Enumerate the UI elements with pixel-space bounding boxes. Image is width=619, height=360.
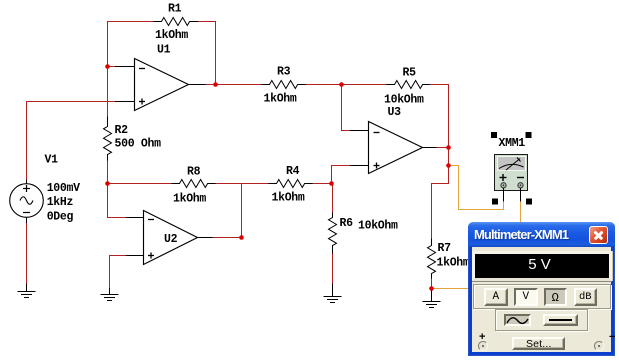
wire: R7 bottom to ground node	[431, 279, 433, 289]
junction dot: U1 output node	[213, 82, 218, 87]
wire: orange lead from R7 ground node right behind window	[432, 288, 472, 290]
selection handle bottom-left	[492, 199, 498, 205]
svg-text:U1: U1	[157, 44, 171, 57]
svg-text:500 Ohm: 500 Ohm	[115, 138, 162, 151]
junction dot: U2 output node	[239, 235, 244, 240]
button V	[514, 288, 538, 306]
ground below R7	[423, 289, 441, 308]
resistor R3	[262, 81, 306, 89]
wire: R4 right to node C	[313, 183, 332, 185]
wire: R2 bottom to node B	[107, 161, 109, 184]
ground below U2	[101, 288, 119, 301]
svg-text:U2: U2	[164, 233, 178, 246]
waveform button group	[495, 309, 588, 331]
resistor R4	[269, 180, 313, 188]
svg-text:V1: V1	[45, 154, 59, 167]
source V1	[10, 180, 44, 224]
svg-text:R7: R7	[438, 242, 452, 255]
svg-text:R3: R3	[277, 66, 291, 79]
resistor R7	[428, 239, 436, 279]
svg-text:0Deg: 0Deg	[47, 211, 74, 224]
wire: node C up to U3 non-inverting input	[332, 166, 351, 184]
svg-text:10kOhm: 10kOhm	[384, 94, 424, 107]
measurement display 5 V	[472, 251, 612, 281]
multimeter window Multimeter-XMM1	[468, 222, 615, 356]
wire: U2 non-inverting input left and down to ground	[110, 256, 127, 289]
window title bar	[468, 222, 615, 247]
button Set	[512, 337, 565, 350]
wire: node B to R8 left	[108, 183, 172, 185]
op-amp U3	[350, 122, 437, 174]
multimeter XMM1 icon	[495, 155, 528, 191]
selection handle top-right	[526, 132, 532, 138]
resistor R8	[172, 180, 216, 188]
svg-text:1kOhm: 1kOhm	[173, 193, 206, 206]
junction dot: U1 minus node	[105, 64, 110, 69]
ground below R6	[324, 284, 342, 303]
wire: V1 minus terminal down to ground	[26, 223, 28, 284]
op-amp U1	[115, 59, 206, 111]
button dB	[574, 288, 597, 306]
wire: node A down to U3 inverting input	[342, 85, 351, 131]
resistor R6	[329, 213, 337, 254]
junction dot: node C R4-R6	[329, 181, 334, 186]
wire: U1 output to R3 left	[206, 84, 262, 86]
wire: R3 right to node A	[306, 84, 342, 86]
minus terminal jack	[594, 341, 604, 351]
ground below V1	[18, 284, 36, 298]
button DC	[543, 314, 579, 326]
svg-text:R2: R2	[115, 124, 129, 137]
junction dot: U3 output node	[446, 145, 451, 150]
svg-text:1kOhm: 1kOhm	[437, 257, 470, 270]
resistor R5	[387, 81, 430, 89]
button A	[484, 288, 508, 306]
svg-text:1kOhm: 1kOhm	[264, 93, 297, 106]
wire: R6 bottom to ground	[332, 254, 334, 284]
selection handle top-left	[491, 132, 497, 138]
svg-text:R4: R4	[286, 165, 300, 178]
wire: output node to meter tap node	[448, 148, 450, 166]
junction dot: R7 ground node	[429, 286, 434, 291]
plus terminal label	[479, 331, 485, 343]
svg-text:1kHz: 1kHz	[47, 196, 74, 209]
wire: node A to R5 left	[342, 84, 387, 86]
wire: orange lead from meter tap node to XMM1 plus pin	[449, 166, 504, 210]
junction dot: node B R2-R8	[105, 181, 110, 186]
wire: node B down to U2 inverting input	[108, 184, 127, 218]
wire: tee junction down to U2 output node	[241, 184, 243, 238]
svg-text:R5: R5	[403, 67, 417, 80]
wire: U2 output lead to its feedback node	[213, 237, 242, 239]
wire: meter tap node down with jog left to R7 top	[432, 166, 449, 239]
wire: V1 plus terminal up and right to U1 non-inverting input	[27, 102, 116, 180]
mode button group	[473, 284, 611, 310]
selection handle bottom-right	[526, 199, 532, 205]
svg-text:XMM1: XMM1	[499, 137, 526, 150]
svg-text:R8: R8	[187, 166, 201, 179]
svg-text:1kOhm: 1kOhm	[272, 192, 305, 205]
button Ohm	[544, 288, 568, 306]
svg-text:R6: R6	[340, 217, 354, 230]
svg-text:U3: U3	[388, 106, 402, 119]
svg-text:R1: R1	[168, 3, 182, 16]
resistor R2	[104, 117, 112, 161]
resistor R1	[154, 18, 199, 26]
op-amp U2	[126, 211, 213, 265]
wire: R5 right down to U3 output node	[430, 85, 449, 148]
wire: R1 left lead across top and down to U1 minus node	[108, 22, 154, 117]
junction dot: node A R3-R5	[339, 82, 344, 87]
wire: R8 right to R4 left	[216, 183, 269, 185]
svg-text:1kOhm: 1kOhm	[155, 29, 188, 42]
pin XMM1 plus	[503, 188, 505, 202]
plus terminal jack	[478, 341, 488, 351]
svg-text:10kOhm: 10kOhm	[358, 220, 398, 233]
wire: node C down to R6 top	[332, 184, 333, 213]
wire: orange lead from XMM1 minus pin down behind window	[520, 202, 522, 224]
junction dot: meter tap node	[446, 163, 451, 168]
wire: R1 right lead down to U1 output node	[198, 22, 216, 85]
svg-text:100mV: 100mV	[47, 182, 80, 195]
wire: minus node to U1 inverting input	[108, 66, 116, 68]
pin XMM1 minus	[520, 188, 522, 202]
wire: U3 output lead to output node	[437, 147, 449, 149]
button AC	[504, 314, 531, 326]
minus terminal label	[609, 331, 615, 343]
